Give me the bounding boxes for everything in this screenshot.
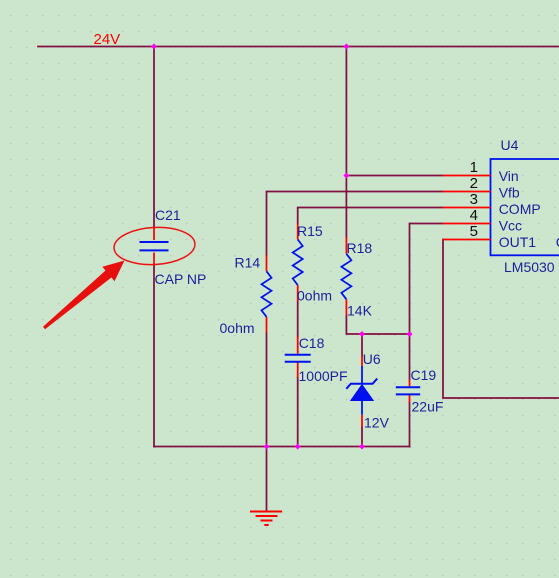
svg-text:U4: U4 (501, 137, 519, 153)
svg-text:C21: C21 (155, 207, 181, 223)
wire C21 bottom to rail (153, 266, 155, 447)
svg-text:CAP NP: CAP NP (155, 271, 207, 287)
wire Vfb net: pin2 to R14 top (267, 192, 443, 256)
pin 2 Vfb (443, 175, 520, 200)
svg-text:2: 2 (470, 175, 478, 192)
capacitor C18 (285, 335, 348, 384)
wire OUT1 net: pin5 down and right (443, 240, 559, 399)
svg-text:LM5030: LM5030 (504, 259, 555, 275)
node U6 top junction (359, 331, 365, 337)
wire C21 column vertical (153, 47, 155, 228)
pin 1 Vin (443, 159, 519, 184)
wire C18 bottom to rail (297, 378, 299, 447)
node C19 top junction (406, 331, 412, 337)
svg-text:R14: R14 (235, 255, 261, 271)
wire 24V to R18 column vertical (345, 47, 347, 238)
svg-text:12V: 12V (364, 415, 390, 431)
wire U6 bottom to rail (361, 427, 363, 447)
svg-text:OUT1: OUT1 (499, 234, 537, 250)
wire R18 bottom to C19 column (346, 316, 409, 335)
svg-text:COMP: COMP (499, 201, 541, 217)
svg-text:C18: C18 (299, 335, 325, 351)
svg-text:C19: C19 (411, 367, 437, 383)
node 24V-C21 junction (151, 43, 157, 49)
node 24V-R18 junction (343, 43, 349, 49)
zener diode U6 (346, 351, 389, 431)
annotation ellipse around C21 (113, 225, 196, 266)
pin 4 Vcc (443, 207, 523, 233)
wire COMP net: pin3 to R15 top (298, 208, 443, 224)
node Vin junction (343, 172, 349, 178)
capacitor C19 (396, 367, 444, 415)
wire C19 bottom to rail end (409, 403, 411, 447)
node U6 bottom junction (359, 443, 365, 449)
annotation arrow (43, 261, 125, 330)
op-amp U4 chip body LM5030 (491, 137, 559, 275)
ground (250, 512, 282, 526)
resistor R15 (293, 223, 332, 304)
svg-text:Vin: Vin (499, 168, 519, 184)
svg-text:U6: U6 (363, 351, 381, 367)
svg-text:14K: 14K (347, 303, 373, 319)
wire Vin net: junction to pin1 (346, 175, 442, 177)
svg-text:5: 5 (470, 223, 478, 240)
svg-text:22uF: 22uF (412, 399, 444, 415)
resistor R18 (341, 238, 372, 319)
svg-text:1: 1 (470, 159, 478, 176)
svg-text:R18: R18 (347, 240, 373, 256)
resistor R14 (220, 255, 272, 337)
node R14 bottom junction (263, 443, 269, 449)
wire bottom ground rail (154, 446, 410, 448)
svg-text:3: 3 (470, 191, 478, 208)
svg-text:0ohm: 0ohm (297, 288, 332, 304)
svg-text:1000PF: 1000PF (299, 368, 348, 384)
svg-text:Vfb: Vfb (499, 184, 520, 200)
wire 24V top rail (38, 46, 559, 48)
svg-text:Vcc: Vcc (499, 217, 522, 233)
wire Vcc net: pin4 down to junction (410, 224, 443, 335)
svg-text:R15: R15 (297, 223, 323, 239)
pin 3 COMP (443, 191, 541, 217)
node C18 bottom junction (295, 443, 301, 449)
svg-text:4: 4 (470, 207, 478, 224)
wire junction to C19 top (409, 334, 411, 380)
capacitor C21 (140, 207, 207, 287)
pin 5 OUT1 (443, 223, 537, 250)
wire R14 bottom to rail (266, 333, 268, 447)
wire U6 top (361, 334, 363, 356)
svg-text:24V: 24V (94, 31, 121, 48)
wire R15 bottom to C18 top (297, 301, 299, 337)
wire ground stem (266, 447, 268, 512)
svg-text:0ohm: 0ohm (220, 320, 255, 336)
